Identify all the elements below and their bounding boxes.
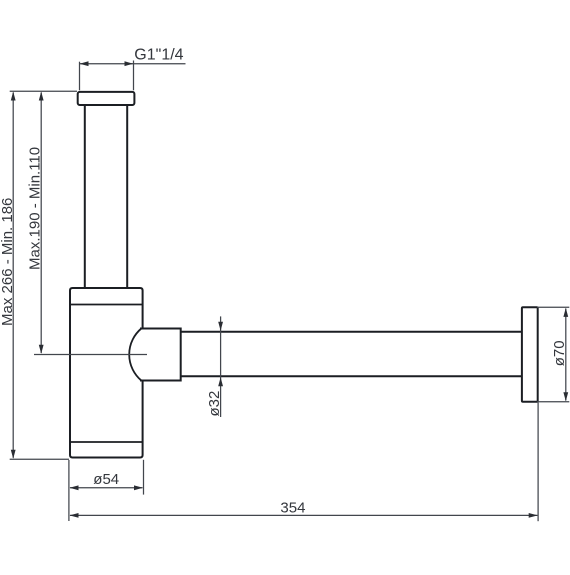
arrow phi54 left [70, 485, 79, 490]
phi70 dimension line [565, 309, 567, 401]
outlet box top edge [140, 328, 181, 330]
arrow G-dim right [125, 61, 134, 66]
arrow Max266 top [11, 92, 16, 101]
arrow phi32 bottom (points up) [218, 377, 223, 386]
bottle body outline [70, 288, 143, 458]
inlet pipe right edge [126, 106, 128, 289]
arrow 354 left [70, 513, 79, 518]
outlet bulge arc [129, 329, 141, 381]
Max266 top extension line [10, 90, 77, 92]
arrow 354 right [529, 513, 538, 518]
G1"1/4 dimension line with leader [80, 63, 186, 65]
svg-text:354: 354 [280, 499, 305, 516]
svg-text:ø32: ø32 [206, 391, 223, 417]
wall pipe top edge [181, 331, 522, 333]
phi54 dimension line [70, 487, 143, 489]
wall pipe bottom edge [181, 375, 522, 377]
arrow phi32 top (points down) [218, 322, 223, 331]
arrow phi70 top [563, 308, 568, 317]
phi70 top extension line [537, 306, 569, 308]
arrow G-dim left [80, 61, 89, 66]
arrow Max266 bottom [11, 450, 16, 459]
arrow phi70 bottom [563, 392, 568, 401]
inlet pipe left edge [84, 106, 86, 289]
svg-text:ø54: ø54 [93, 471, 119, 488]
outlet centerline [34, 354, 147, 356]
phi70 bottom extension line [537, 401, 569, 403]
wall flange [522, 307, 538, 401]
phi32 dimension line [220, 316, 222, 417]
G1"1/4 right extension line [133, 61, 135, 91]
354 right extension line [537, 403, 539, 522]
body bottom band line [70, 441, 143, 443]
arrow Max190 top [39, 92, 44, 101]
svg-text:Max.190 - Min.110: Max.190 - Min.110 [27, 147, 44, 270]
outlet end cap [180, 328, 182, 382]
arrow phi54 right [134, 485, 143, 490]
Max190 dimension line [40, 93, 42, 354]
phi54 right extension line [143, 460, 145, 495]
Max266 bottom extension line [10, 458, 69, 460]
svg-text:G1"1/4: G1"1/4 [134, 47, 183, 64]
svg-text:ø70: ø70 [551, 340, 568, 366]
outlet box bottom edge [140, 380, 181, 382]
arrow Max190 bottom [39, 345, 44, 354]
G1"1/4 left extension line [79, 62, 81, 91]
body top band line [70, 304, 143, 306]
Max266 dimension line [12, 93, 14, 458]
354 dimension line [70, 514, 537, 516]
svg-text:Max 266 - Min. 186: Max 266 - Min. 186 [0, 198, 16, 326]
top flange nut [78, 92, 135, 105]
phi54 left extension line (shared with 354) [68, 460, 70, 521]
